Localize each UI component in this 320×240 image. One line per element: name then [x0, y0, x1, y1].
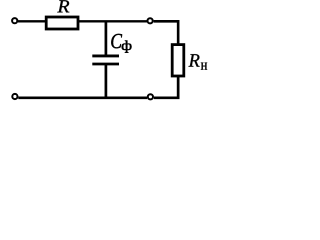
wire: bottom rail left segment [18, 96, 147, 99]
label R (series resistor designation) [57, 0, 69, 12]
capacitor C_f top lead wire (junction at top rail) [105, 21, 108, 56]
terminal: bottom-right output terminal [148, 94, 153, 99]
capacitor C_f top plate [92, 54, 119, 57]
resistor R_n (load resistor, vertical box) [172, 45, 184, 76]
wire: top rail right segment with corner down to load resistor [154, 21, 179, 44]
capacitor C_f bottom lead wire (junction at bottom rail) [105, 65, 108, 98]
wire: top rail middle segment (R to top-right terminal) [78, 20, 148, 22]
resistor R (series resistor, horizontal box) [46, 17, 78, 29]
label R_n: subscript Cyrillic en [201, 63, 207, 70]
label C_f: subscript Cyrillic ef [122, 40, 132, 52]
label C_f: letter C (filter capacitor designation) [111, 34, 122, 48]
capacitor C_f bottom plate [92, 63, 119, 66]
wire: top rail left segment (input terminal to resistor R) [18, 20, 46, 22]
terminal: bottom-left input terminal [12, 94, 17, 99]
terminal: top-left input terminal [12, 18, 17, 23]
label R_n: letter R (load resistor designation) [189, 54, 200, 66]
wire: load resistor bottom lead down to bottom rail corner [154, 75, 178, 98]
terminal: top-right output terminal [148, 18, 153, 23]
